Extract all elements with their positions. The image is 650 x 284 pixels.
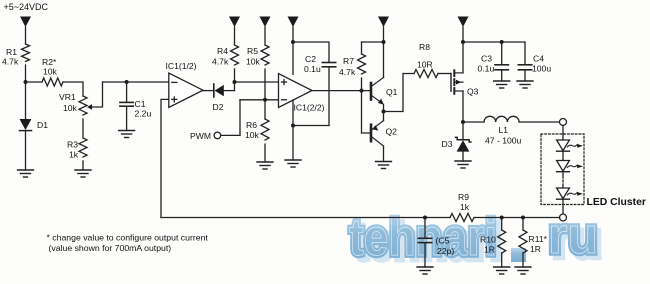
wire R2 to VR1: [63, 82, 83, 96]
svg-text:1k: 1k: [69, 150, 79, 160]
svg-text:0.1u: 0.1u: [478, 64, 495, 74]
svg-text:C3: C3: [481, 54, 492, 64]
svg-text:(C5: (C5: [436, 236, 450, 246]
wire node to R2: [26, 81, 43, 83]
node R7 bottom: [360, 89, 364, 93]
resistor R10: [498, 218, 506, 268]
ground R3: [75, 170, 91, 177]
svg-text:* change value to configure ou: * change value to configure output curre…: [47, 233, 209, 243]
svg-text:1R: 1R: [530, 244, 541, 254]
wire feedback line left segment: [161, 217, 450, 219]
resistor R2*: [42, 78, 63, 86]
ground C4: [517, 81, 533, 88]
wire op-amp1 + input feedback: [161, 99, 169, 217]
svg-text:R2*: R2*: [42, 57, 57, 67]
diode D1: [20, 119, 32, 170]
wire VR1 to R3: [82, 119, 84, 138]
svg-text:R10: R10: [480, 235, 496, 245]
op-amp U1 IC1(2/2): [279, 74, 313, 108]
ground R10: [494, 267, 510, 274]
potentiometer VR1: [79, 82, 103, 115]
svg-text:Q3: Q3: [467, 87, 479, 97]
resistor R7: [358, 42, 384, 91]
svg-text:IC1(2/2): IC1(2/2): [294, 103, 325, 113]
svg-text:Q2: Q2: [386, 127, 398, 137]
svg-text:0.1u: 0.1u: [304, 64, 321, 74]
wire: [25, 82, 27, 119]
resistor R4: [231, 45, 239, 65]
wire rail to C3 C4: [463, 42, 525, 64]
wire R5 down to minus line: [264, 69, 266, 100]
svg-text:C2: C2: [305, 54, 316, 64]
resistor R3: [79, 138, 87, 157]
wire terminal into box: [562, 125, 564, 140]
resistor R6: [261, 119, 269, 140]
svg-text:1k: 1k: [460, 202, 470, 212]
wire wiper to op-amp: [103, 81, 169, 83]
svg-text:2.2u: 2.2u: [135, 109, 152, 119]
node R10: [500, 216, 504, 220]
svg-text:ru: ru: [548, 207, 598, 264]
wire rail to C2: [293, 42, 329, 62]
capacitor C2: [322, 63, 335, 126]
svg-text:D1: D1: [37, 120, 48, 130]
svg-text:VR1: VR1: [59, 92, 76, 102]
wire D2 node up to R4: [234, 69, 236, 91]
terminal LED-: [560, 214, 567, 221]
svg-text:4.7k: 4.7k: [2, 57, 19, 67]
svg-text:22p): 22p): [437, 246, 454, 256]
svg-text:D3: D3: [442, 139, 453, 149]
capacitor C1: [120, 82, 133, 131]
svg-text:4.7k: 4.7k: [339, 67, 356, 77]
node + input IC1(2/2): [233, 80, 237, 84]
svg-text:C1: C1: [135, 99, 146, 109]
wire op-amp2 V- pin to ground: [292, 100, 294, 160]
resistor R11*: [519, 218, 527, 268]
wire: [25, 65, 27, 82]
node drain rail: [461, 40, 465, 44]
svg-text:(value shown for 700mA output): (value shown for 700mA output): [49, 243, 172, 253]
svg-text:R3: R3: [67, 140, 78, 150]
svg-text:10k: 10k: [246, 57, 261, 67]
wire to op-amp2 + input: [235, 81, 279, 83]
ground Q2: [376, 162, 392, 169]
LED 3: [557, 187, 583, 214]
svg-text:R9: R9: [458, 192, 469, 202]
node V+ rail: [291, 40, 295, 44]
svg-text:C4: C4: [533, 54, 544, 64]
supply arrow op-amp2 V+: [288, 17, 299, 75]
node R11: [521, 216, 525, 220]
ground D1: [18, 170, 34, 177]
wire node to L1: [463, 121, 484, 123]
wire R8 to gate: [438, 73, 451, 75]
svg-text:1R: 1R: [484, 245, 495, 255]
wire op-amp1 output: [203, 90, 214, 92]
svg-text:R4: R4: [217, 46, 228, 56]
svg-text:R6: R6: [246, 120, 257, 130]
ground R11: [515, 267, 531, 274]
resistor R5: [261, 45, 269, 65]
wire R6 to ground: [264, 144, 266, 162]
svg-text:L1: L1: [499, 125, 509, 135]
wire supply to Q1 collector: [383, 42, 385, 78]
svg-text:10R: 10R: [417, 60, 433, 70]
diode D3 schottky: [456, 122, 471, 161]
wire op-amp2 output: [312, 90, 370, 92]
node C5: [423, 216, 427, 220]
ground op-amp2: [285, 160, 301, 167]
wire bases Q1-Q2: [362, 91, 371, 133]
svg-text:4.7k: 4.7k: [212, 57, 229, 67]
node junction R1/D1/R2: [24, 80, 28, 84]
svg-text:+5~24VDC: +5~24VDC: [4, 2, 49, 12]
node C3: [500, 40, 504, 44]
LED 1: [557, 140, 583, 161]
capacitor C4: [518, 65, 531, 81]
diode D2: [214, 84, 235, 97]
svg-text:D2: D2: [213, 102, 224, 112]
wire L1 to terminal: [519, 121, 560, 123]
watermark tehnari.ru: [349, 207, 602, 272]
PWM terminal: [214, 100, 240, 139]
node emitters: [382, 110, 386, 114]
supply arrow R4: [229, 17, 240, 46]
resistor R9: [450, 214, 475, 222]
mosfet Q3: [451, 42, 463, 122]
resistor R1: [22, 44, 30, 62]
node C1: [125, 80, 129, 84]
ground C5: [417, 267, 433, 274]
wire R3 to ground: [82, 161, 84, 170]
svg-text:47 - 100u: 47 - 100u: [485, 136, 522, 146]
transistor Q1: [371, 78, 384, 112]
supply arrow Q3 drain: [458, 17, 469, 43]
ground C1: [119, 131, 135, 138]
svg-text:R5: R5: [247, 46, 258, 56]
wire emitters to R8: [384, 74, 415, 112]
svg-text:10k: 10k: [245, 130, 260, 140]
svg-text:100u: 100u: [532, 64, 551, 74]
ground D3: [455, 161, 471, 168]
wire R9 to terminal: [475, 217, 560, 219]
supply +5~24VDC arrow: [20, 17, 31, 45]
svg-text:PWM: PWM: [190, 131, 211, 141]
inductor L1: [484, 116, 519, 122]
capacitor C5: [418, 218, 431, 268]
node R5/R6 minus input: [263, 98, 267, 102]
node supply Q1/R7: [382, 40, 386, 44]
svg-text:10k: 10k: [63, 103, 78, 113]
svg-text:R11*: R11*: [529, 234, 548, 244]
op-amp U1 IC1(1/2): [169, 73, 203, 108]
supply arrow R5: [260, 17, 271, 46]
svg-text:IC1(1/2): IC1(1/2): [166, 61, 197, 71]
capacitor C3: [495, 42, 508, 81]
LED 2: [557, 161, 583, 176]
terminal LED+: [560, 119, 567, 126]
ground R6: [257, 162, 273, 169]
node source / D3 / L1: [461, 120, 465, 124]
wire C2 bottom to V-: [293, 125, 329, 127]
svg-text:LED Cluster: LED Cluster: [587, 197, 646, 208]
svg-text:Q1: Q1: [386, 87, 398, 97]
ground C3: [494, 81, 510, 88]
svg-text:R7: R7: [343, 56, 354, 66]
supply arrow Q1: [378, 17, 389, 43]
svg-text:R8: R8: [419, 42, 430, 52]
svg-text:10k: 10k: [43, 67, 58, 77]
wire minus line op-amp2: [240, 99, 279, 101]
resistor R8: [414, 70, 438, 78]
wire R6 top: [264, 100, 266, 119]
node V- ground line: [291, 124, 295, 128]
dashed wire more LEDs: [562, 176, 564, 187]
svg-text:R1: R1: [6, 47, 17, 57]
LED cluster dashed box: [541, 134, 584, 205]
transistor Q2: [371, 112, 384, 162]
